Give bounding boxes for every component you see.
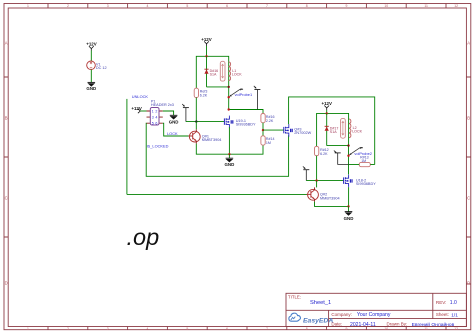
svg-text:1/1: 1/1 [451,312,458,318]
diode D#17 [325,126,339,134]
svg-text:12: 12 [454,4,458,8]
wire junction to Q#3 gate [263,129,284,131]
ground (V1) [86,82,96,91]
probe volProbe1 [229,89,252,97]
junction (probe tip) [228,96,230,98]
svg-text:5: 5 [186,4,188,8]
svg-text:S1A: S1A [210,73,217,77]
inductor L2 coil [349,119,363,138]
svg-text:LOCK: LOCK [167,131,178,136]
wire Ref3 to gate node [195,98,197,122]
wire [90,51,92,62]
wire drain node to R#16 [229,110,263,114]
svg-text:Your Company: Your Company [357,312,391,318]
wire [90,70,92,83]
+12V flag (relay K1) [201,37,211,46]
probe volProbe2 [349,147,372,156]
svg-text:9: 9 [346,327,348,331]
svg-text:6: 6 [226,4,228,8]
svg-text:SI9936BDY: SI9936BDY [356,182,376,186]
mosfet U19-1 SI9936BDY [224,116,256,129]
svg-text:12: 12 [454,327,458,331]
svg-text:+12V: +12V [322,101,332,106]
wire diode branch [206,56,208,87]
relay 2 switch body [341,118,346,138]
svg-text:REV:: REV: [436,300,447,305]
wire R#16 to junction [262,123,264,136]
wire pin6 LOCK to Q#1 base [163,123,189,136]
svg-text:UNLOCK: UNLOCK [132,94,149,99]
svg-text:MMBT3904: MMBT3904 [202,138,222,142]
svg-text:B: B [5,116,8,121]
svg-text:MMBT3904: MMBT3904 [320,196,340,200]
svg-text:SI9936BDY: SI9936BDY [236,123,256,127]
svg-text:Евгений Онлайнов: Евгений Онлайнов [412,321,455,328]
relay U8 outline [196,56,228,88]
wire Q#1 emitter to gnd rail [196,144,263,155]
wire pin2 to GND [163,111,174,115]
junction [347,205,349,207]
svg-text:10: 10 [384,4,388,8]
svg-text:GND: GND [344,216,354,221]
svg-text:D: D [5,281,8,286]
svg-text:5: 5 [152,122,154,126]
junction [262,129,264,131]
svg-text:A: A [5,41,8,46]
resistor R#12 [315,146,329,155]
wire Q#2 emitter to gnd rail [315,202,349,207]
svg-text:2N7002W: 2N7002W [294,131,311,135]
svg-text:GND: GND [225,162,235,167]
relay 1 switch body [220,61,225,81]
wire gate net [186,121,224,123]
wire Q#3 drain up and across [289,97,375,165]
svg-text:+12V: +12V [131,106,141,111]
svg-text:IS_LOCKED: IS_LOCKED [147,144,169,149]
resistor R#14 [261,136,275,145]
junction (probe tip) [347,155,349,157]
junction [228,108,230,110]
svg-text:1: 1 [27,327,29,331]
svg-text:LOCK: LOCK [352,130,362,134]
diode D#16 [204,69,218,77]
EasyEDA logo [289,313,333,324]
wire diode branch [326,113,328,145]
svg-text:Sheet:: Sheet: [436,312,449,317]
resistor R#16 [261,114,275,123]
transistor Q#2 MMBT3904 [307,187,340,201]
junction (black) [195,120,197,122]
svg-text:GND: GND [169,119,179,124]
svg-text:1.0: 1.0 [450,300,457,306]
probe pin (R#16 top) [254,86,261,110]
svg-text:3: 3 [152,116,154,120]
svg-text:A: A [467,41,470,46]
svg-text:9: 9 [346,4,348,8]
svg-text:2: 2 [67,327,69,331]
svg-text:2: 2 [155,109,157,113]
mosfet Q#3 2N7002W [284,124,312,137]
svg-text:DC 12: DC 12 [96,66,107,70]
junction [205,55,207,57]
svg-text:HEADER 2x3: HEADER 2x3 [151,103,174,107]
junction [228,86,230,88]
svg-text:8: 8 [306,327,308,331]
title block texts [288,294,458,328]
svg-text:2021-04-11: 2021-04-11 [350,322,376,328]
wire [206,46,208,56]
svg-text:1: 1 [27,4,29,8]
svg-text:8: 8 [306,4,308,8]
svg-text:Company:: Company: [331,312,352,317]
svg-text:B: B [467,116,470,121]
ground (U18) [344,206,354,220]
wire R#12 down to Q#2 collector node [316,156,318,181]
+12V flag (relay K2) [322,101,332,110]
svg-text:7: 7 [266,327,268,331]
svg-text:.op: .op [127,224,160,250]
relay U9 outline [317,113,349,146]
transistor Q#1 MMBT3904 [189,129,222,143]
svg-text:2.2K: 2.2K [266,119,274,123]
svg-text:EasyEDA: EasyEDA [303,317,333,324]
svg-text:D: D [467,281,470,286]
svg-text:C: C [467,196,470,201]
svg-text:7: 7 [266,4,268,8]
wire Q#2 collector [316,181,318,188]
probe pin (Q#2 collector net) [303,166,309,180]
wire relay1 out / U19 drain [228,87,230,111]
svg-text:TITLE:: TITLE: [288,294,301,299]
svg-text:10: 10 [384,327,388,331]
svg-text:1M: 1M [266,141,271,145]
svg-text:3: 3 [107,327,109,331]
+12V flag (P1 pin1) [131,106,146,113]
svg-text:Drawn By:: Drawn By: [387,322,408,327]
voltage source V1 [87,61,107,70]
inductor L1 coil [229,62,243,81]
svg-text:1: 1 [152,109,154,113]
resistor R#13 [349,155,375,166]
svg-text:6: 6 [155,122,157,126]
ground (U19) [225,154,235,167]
wire collector node to U18 gate [306,180,343,182]
svg-text:2: 2 [67,4,69,8]
svg-text:4: 4 [147,4,149,8]
svg-text:C: C [5,196,8,201]
junction [347,144,349,146]
wire Q#1 collector [195,122,197,130]
svg-text:S1A: S1A [330,130,337,134]
junction [228,153,230,155]
svg-text:5: 5 [186,327,188,331]
svg-text:volProbe1: volProbe1 [235,92,253,97]
svg-text:LOCK: LOCK [232,73,242,77]
probe pin (gate net) [182,104,189,122]
svg-text:+12V: +12V [86,42,96,47]
ground (P1) [169,115,179,124]
junction [326,112,328,114]
wire relay2 out / U18 drain [348,146,350,175]
+12V flag (V1) [86,42,96,51]
wire U18 source down [348,187,350,206]
wire pin5 IS_LOCKED [146,123,288,176]
wire [326,110,328,113]
probe pin (R#13 left) [334,151,349,165]
svg-text:6.2K: 6.2K [320,152,328,156]
svg-text:6: 6 [226,327,228,331]
svg-text:3: 3 [107,4,109,8]
mosfet U18-2 SI9936BDY [344,175,377,188]
wire UNLOCK horizontal to Q#2 base [127,193,307,195]
svg-text:GND: GND [86,86,96,91]
wire U19 source down [228,127,230,154]
svg-text:11: 11 [424,4,428,8]
svg-text:Sheet_1: Sheet_1 [310,300,331,306]
svg-text:4: 4 [147,327,149,331]
frame row letters [5,41,471,286]
connector P1 HEADER 2x3 [147,99,174,125]
svg-text:6.2K: 6.2K [200,94,208,98]
resistor Ref3 [194,88,208,97]
svg-text:+12V: +12V [201,37,211,42]
svg-text:4: 4 [155,116,157,120]
wire UNLOCK vertical [126,99,128,194]
junction [315,179,317,181]
